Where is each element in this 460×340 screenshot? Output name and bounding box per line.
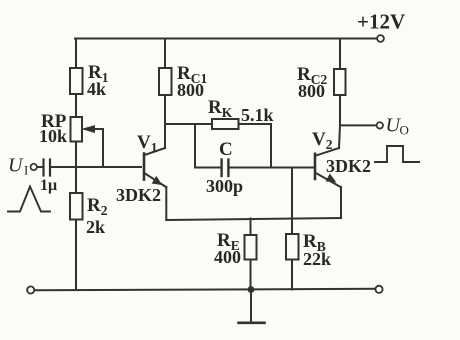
svg-text:2k: 2k <box>86 217 105 237</box>
wire: left drop from RK line to C line <box>194 124 196 168</box>
wire: RB to bottom rail <box>291 260 293 290</box>
resistor RK (horizontal) <box>212 119 239 129</box>
wire: right drop from RK line to C line <box>270 124 272 168</box>
wire: RP bottom through input line to R2 <box>75 143 77 194</box>
svg-text:800: 800 <box>298 81 325 101</box>
wire: C line right segment to V2 base <box>229 167 314 169</box>
wire: output line to UO terminal <box>340 124 377 126</box>
resistor RE <box>245 235 257 260</box>
capacitor C left plate <box>220 160 222 177</box>
wire: emitter line to RE <box>250 219 252 236</box>
wire: top rail to RC1 <box>164 39 166 69</box>
svg-text:V2: V2 <box>312 129 333 152</box>
transistor V1 collector lead <box>145 148 165 155</box>
terminal: +12V node circle <box>377 35 384 42</box>
transistor V1 base bar <box>143 154 146 180</box>
wire: RC1 to V1 collector <box>164 95 166 148</box>
transistor V1 emitter arrowhead <box>152 177 161 185</box>
terminal: input UI circle <box>31 164 37 170</box>
svg-text:800: 800 <box>177 80 204 100</box>
terminal: bottom-right circle <box>375 286 382 293</box>
wire: terminal to capacitor <box>37 166 43 168</box>
input trigger waveform symbol <box>8 187 50 212</box>
svg-text:1μ: 1μ <box>40 177 57 194</box>
resistor R2 <box>70 193 83 220</box>
terminal: bottom-left circle <box>27 286 34 293</box>
transistor V2 emitter lead <box>316 173 341 187</box>
potentiometer RP body <box>71 117 83 142</box>
resistor R1 <box>70 68 83 94</box>
svg-text:22k: 22k <box>303 249 331 269</box>
wire: top rail to R1 <box>75 39 77 69</box>
output pulse waveform symbol <box>375 146 419 162</box>
svg-text:+12V: +12V <box>357 10 405 34</box>
transistor V2 collector lead <box>316 148 339 155</box>
transistor V1 emitter lead <box>145 174 166 188</box>
wire: RE to bottom rail <box>250 260 252 290</box>
svg-text:V1: V1 <box>137 132 158 155</box>
svg-text:300p: 300p <box>206 176 243 196</box>
ground bar <box>239 321 265 324</box>
transistor V2 emitter arrowhead <box>326 174 335 182</box>
wire: RK right to corner <box>239 123 272 125</box>
svg-text:4k: 4k <box>87 79 106 99</box>
wire: V2 base node down through emitter line to RB <box>291 168 293 235</box>
wire: common emitter line <box>166 218 341 220</box>
wire: top rail to RC2 <box>339 39 341 70</box>
capacitor 1u left plate <box>42 160 44 176</box>
capacitor C right plate <box>227 160 229 177</box>
svg-text:C: C <box>219 139 233 160</box>
resistor RB <box>286 234 299 260</box>
wire: C line left segment <box>195 167 221 169</box>
junction: RE/ground node dot <box>248 286 255 293</box>
svg-text:10k: 10k <box>39 126 67 146</box>
svg-text:O: O <box>400 123 409 138</box>
potentiometer RP wiper arrow <box>94 128 103 130</box>
svg-text:400: 400 <box>214 247 241 267</box>
ground stem <box>250 290 252 323</box>
wire: V2 emitter down and left to emitter line <box>340 187 342 218</box>
resistor RC1 <box>159 68 172 95</box>
svg-text:3DK2: 3DK2 <box>326 156 371 176</box>
wire: capacitor to V1 base <box>51 166 141 168</box>
svg-text:I: I <box>24 163 28 178</box>
svg-text:3DK2: 3DK2 <box>116 185 161 205</box>
svg-text:U: U <box>8 155 24 177</box>
wire: RP wiper down to input line <box>102 129 104 167</box>
wire: bottom ground rail <box>35 289 376 291</box>
svg-text:R2: R2 <box>87 195 108 218</box>
svg-text:5.1k: 5.1k <box>241 105 274 125</box>
resistor RC2 <box>334 69 346 95</box>
svg-text:RK: RK <box>208 97 233 120</box>
wire: R1 to RP <box>75 94 77 117</box>
wire: +12V top supply rail <box>75 38 377 40</box>
capacitor 1u right plate <box>49 160 51 176</box>
terminal: output UO circle <box>377 122 383 128</box>
wire: R2 to bottom rail <box>75 220 77 291</box>
wire: V1 emitter down <box>165 187 167 220</box>
wire: V1 collector branch to RK <box>165 123 212 125</box>
wire: RC2 to V2 collector <box>339 95 340 148</box>
transistor V2 base bar <box>314 154 317 179</box>
